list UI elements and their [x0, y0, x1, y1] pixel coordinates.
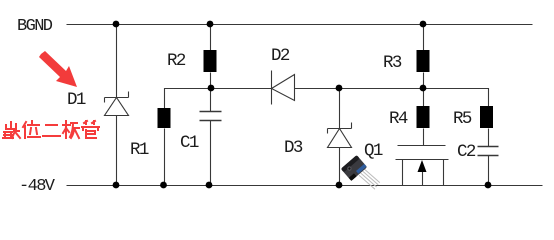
node R1/-48V — [160, 182, 167, 189]
wire D1 bottom — [116, 116, 118, 186]
node C2/-48V — [485, 182, 492, 189]
wire R3 bottom — [423, 73, 425, 89]
capacitor C1 — [200, 112, 222, 121]
resistor R4 — [417, 106, 430, 128]
wire node to C1 — [210, 89, 212, 112]
wire D1 top — [116, 25, 118, 98]
wire node R3 to R5 — [424, 89, 489, 107]
net -48V bottom rail — [67, 185, 543, 187]
transistor Q1 package picture body — [341, 155, 367, 181]
capacitor C2 — [478, 147, 499, 156]
char 极 — [63, 121, 79, 138]
svg-text:R4: R4 — [389, 109, 408, 129]
svg-text:-48V: -48V — [19, 177, 56, 196]
svg-text:D2: D2 — [271, 46, 290, 66]
svg-text:R1: R1 — [130, 140, 149, 160]
svg-text:C1: C1 — [180, 133, 199, 153]
resistor R3 — [417, 50, 430, 72]
wire R2 top — [210, 25, 212, 51]
svg-text:Q1: Q1 — [364, 141, 383, 161]
red annotation text 嵌位二极管 (clamping diode) — [3, 121, 99, 138]
node C1/-48V — [206, 182, 213, 189]
wire R4 top — [423, 89, 425, 107]
wire R2 bottom to node — [210, 73, 212, 89]
char 嵌 — [3, 122, 20, 138]
char 位 — [23, 121, 40, 138]
resistor R5 — [480, 106, 493, 128]
diode D1 (zener) — [105, 92, 129, 116]
wire R3 top — [423, 25, 425, 51]
wire D3 bottom — [339, 148, 341, 186]
svg-text:BGND: BGND — [17, 17, 53, 36]
wire C1 bottom — [210, 121, 212, 186]
wire R5 to C2 — [488, 129, 490, 147]
diode D2 — [272, 71, 295, 105]
svg-text:R3: R3 — [383, 53, 402, 73]
transistor Q1 source arrow — [418, 160, 427, 172]
node R2/C1/D2 — [208, 85, 215, 92]
svg-text:R5: R5 — [453, 109, 472, 129]
node D3 top — [336, 85, 343, 92]
diode D3 (zener) — [328, 123, 352, 148]
node R2/BGND — [207, 21, 214, 28]
wire R1 bottom — [164, 129, 166, 186]
svg-text:D3: D3 — [284, 138, 303, 158]
resistor R2 — [204, 50, 217, 72]
wire D3 top — [339, 89, 341, 129]
node D1/-48V — [113, 182, 120, 189]
svg-text:R2: R2 — [167, 51, 186, 71]
wire node D3 to node R3 — [340, 88, 424, 90]
wire C2 bottom — [488, 156, 490, 186]
char 管 — [82, 121, 99, 138]
svg-text:C2: C2 — [457, 142, 476, 162]
transistor Q1 MOSFET symbol — [396, 146, 449, 186]
wire node to D2 cathode — [212, 88, 272, 90]
red callout arrow — [39, 51, 77, 87]
wire D2 anode to node D3 — [295, 88, 340, 90]
svg-text:D1: D1 — [67, 90, 86, 110]
transistor Q1 package picture leads — [359, 169, 380, 190]
char 二 — [43, 125, 60, 136]
net BGND top rail — [67, 24, 533, 26]
node D1/BGND — [113, 21, 120, 28]
wire node to R1 — [165, 89, 212, 109]
resistor R1 — [158, 108, 171, 128]
wire R4 to Q1 drain — [423, 129, 425, 146]
node R3/BGND — [420, 21, 427, 28]
node D3/-48V — [336, 182, 343, 189]
node R3/R4 — [420, 85, 427, 92]
